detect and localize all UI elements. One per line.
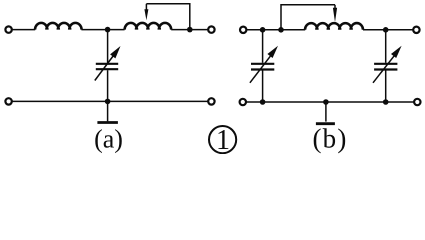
wire top-left (a) (12, 29, 35, 31)
wire top-left (b) (247, 29, 306, 31)
tap arrow on L2 (a) (144, 4, 148, 20)
variable capacitor C1 (a) (95, 46, 121, 81)
bottom rail wire (a) (12, 100, 208, 102)
inductor L2 tapped (a) (125, 23, 172, 30)
tap wire over L3 (b) (281, 5, 335, 30)
node C junction dot (left cap) (260, 27, 266, 33)
inductor L1 (a) (35, 23, 82, 30)
wire node A down to capacitor (107, 30, 109, 63)
node D junction dot (tap) (278, 27, 284, 33)
bottom junction dot right (b) (383, 99, 389, 105)
bottom junction dot left (b) (260, 99, 266, 105)
figure number 1 (209, 125, 236, 156)
node B junction dot (187, 27, 193, 33)
wire node C down to left capacitor (262, 30, 264, 63)
ground (a) (97, 101, 118, 122)
terminal top-right (a) (208, 26, 214, 32)
variable capacitor C3 (b right) (373, 46, 402, 83)
wire L3 to terminal (b) (363, 29, 413, 31)
bottom junction dot (a) (105, 99, 111, 105)
ground (b) (316, 102, 335, 124)
svg-text:1: 1 (216, 125, 230, 154)
inductor L3 tapped (b) (305, 23, 363, 30)
svg-text:(b): (b) (312, 124, 347, 154)
circuit (b) (240, 5, 421, 154)
terminal bottom-left (b) (240, 99, 246, 105)
terminal bottom-right (b) (414, 99, 420, 105)
wire capacitor down to bottom rail (a) (107, 70, 109, 101)
terminal top-left (a) (5, 26, 11, 32)
svg-text:(a): (a) (94, 124, 123, 153)
wire L2 to node B (171, 29, 208, 31)
wire right capacitor to bottom rail (b) (385, 71, 387, 103)
wire L1 to node A (81, 29, 124, 31)
tap arrow on L3 (b) (333, 5, 337, 22)
wire left capacitor to bottom rail (b) (262, 71, 264, 103)
terminal bottom-right (a) (208, 98, 214, 104)
terminal top-left (b) (240, 27, 246, 33)
node E junction dot (right cap) (383, 27, 389, 33)
terminal bottom-left (a) (5, 98, 11, 104)
circuit (a) (5, 4, 214, 154)
node A junction dot (105, 27, 111, 33)
terminal top-right (b) (413, 27, 419, 33)
tap wire over L2 (a) (146, 4, 189, 30)
variable capacitor C2 (b left) (250, 46, 278, 83)
wire node E down to right capacitor (385, 30, 387, 63)
bottom rail wire (b) (246, 101, 414, 103)
bottom junction dot middle (b) (323, 99, 329, 105)
